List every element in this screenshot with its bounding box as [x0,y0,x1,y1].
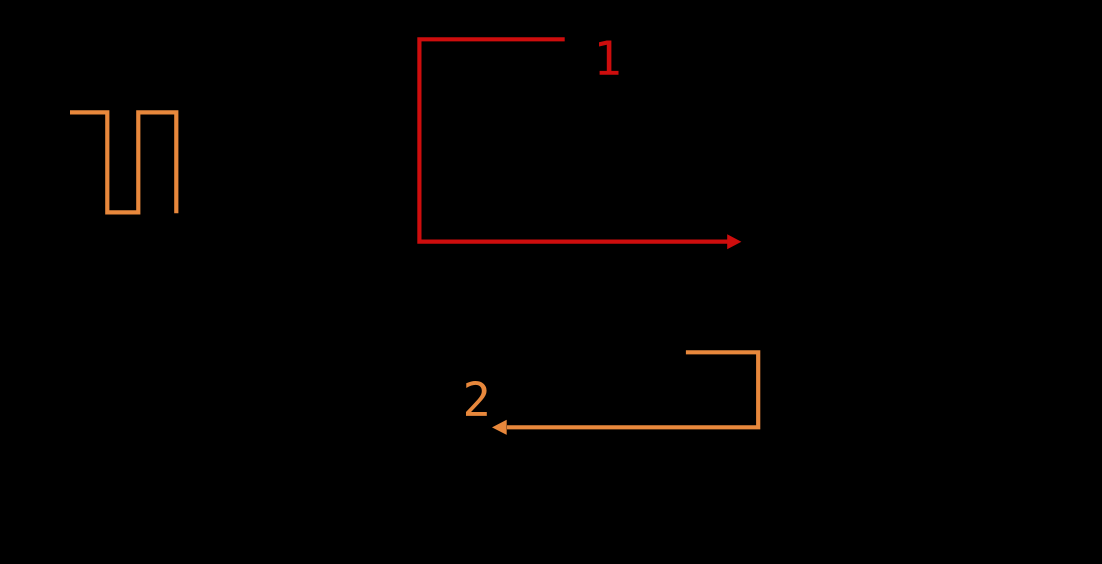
pulse waveform (orange clock/data burst symbol) [70,112,176,213]
arrowhead of red path 1 (points right) [727,234,741,249]
wire: orange return path 2 (from right side down and left) [507,352,758,427]
arrowhead of orange path 2 (points left) [492,420,507,435]
label 2 (orange step number glyph) [466,381,487,416]
label 1 (red step number glyph) [599,41,618,75]
wire: red transfer path 1 (from source down and right) [419,39,727,241]
